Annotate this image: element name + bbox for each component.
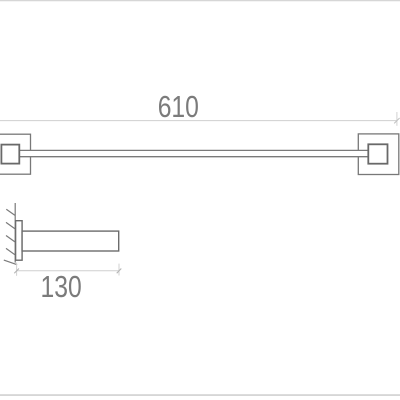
svg-text:610: 610 — [158, 89, 199, 123]
right bracket outer square — [358, 134, 399, 175]
extension line left (130) — [16, 263, 18, 276]
wall hatch 5 — [4, 260, 17, 265]
wall plate — [16, 221, 23, 261]
wall hatch 1 — [6, 209, 15, 215]
svg-text:130: 130 — [40, 270, 81, 304]
bar top line — [19, 149, 368, 151]
wall hatch 3 — [6, 236, 15, 242]
dimension line 130 — [17, 270, 119, 272]
arm — [22, 231, 119, 251]
right bracket inner square — [368, 144, 387, 163]
wall hatch 2 — [6, 222, 15, 228]
wall hatch 4 — [6, 248, 15, 254]
tick right — [394, 118, 399, 123]
tick left (130) — [14, 269, 19, 274]
dimension line 610 — [0, 120, 397, 122]
extension line right — [396, 112, 398, 126]
extension line right (130) — [118, 264, 120, 276]
wire — [0, 394, 400, 396]
wall line — [14, 203, 16, 263]
wire — [0, 0, 400, 2]
bar fill — [19, 150, 369, 157]
bar bottom line — [19, 156, 368, 158]
left bracket inner square — [1, 145, 19, 164]
tick right (130) — [117, 269, 122, 274]
left bracket outer square — [0, 134, 31, 174]
